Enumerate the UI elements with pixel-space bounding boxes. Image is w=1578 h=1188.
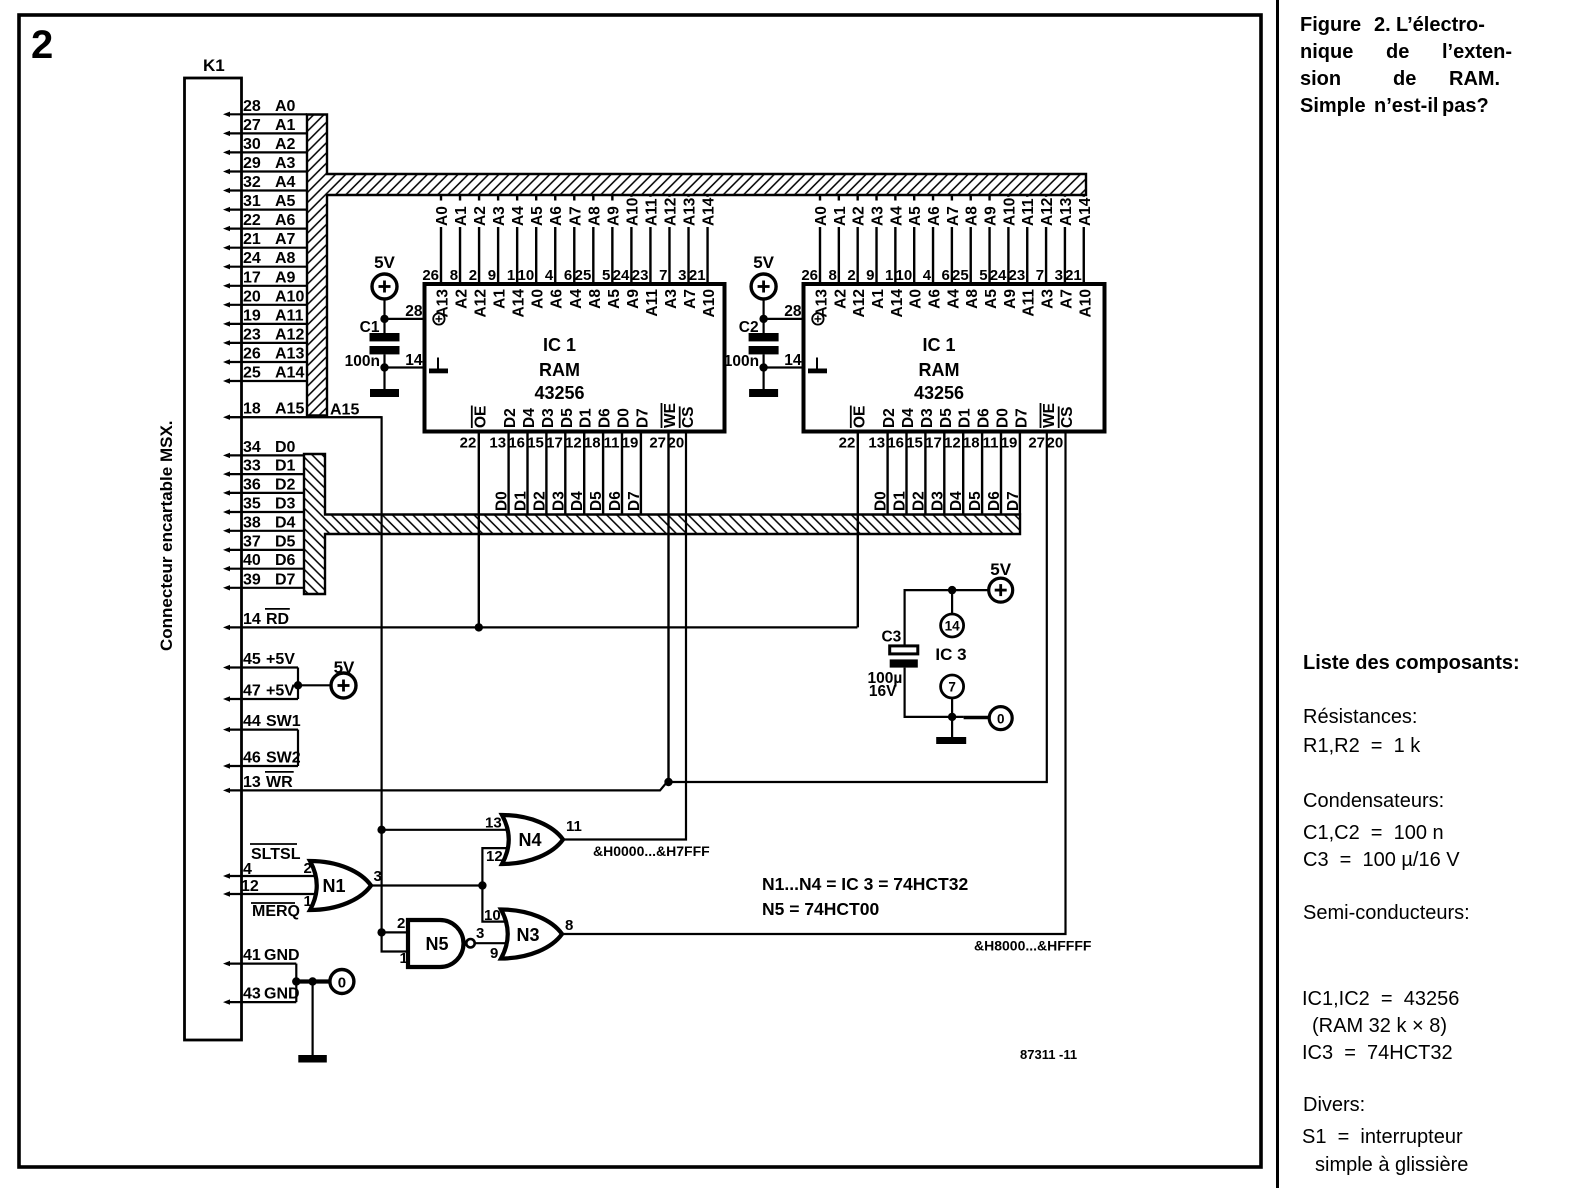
svg-text:D2: D2 [881,408,898,428]
5V supply symbol for IC2 [751,253,776,299]
svg-text:D7: D7 [1005,491,1022,511]
svg-text:25: 25 [575,267,592,284]
junction GND bracket [292,977,300,985]
svg-text:A11: A11 [275,307,304,324]
svg-text:A7: A7 [682,289,699,309]
svg-text:A5: A5 [907,206,924,226]
svg-text:A6: A6 [275,212,296,229]
svg-text:A10: A10 [275,288,304,305]
svg-text:D3: D3 [550,491,567,511]
svg-text:A14: A14 [511,289,528,318]
K1 pin 46 (SW2) [223,750,301,769]
K1 pin 20 (A10) [223,288,307,307]
svg-text:1: 1 [400,950,408,967]
svg-text:A15: A15 [330,402,359,419]
svg-text:A0: A0 [813,206,830,226]
0V supply symbol (IC3) [989,707,1012,730]
svg-text:D0: D0 [275,439,296,456]
svg-text:A4: A4 [888,206,905,226]
svg-text:D7: D7 [275,571,296,588]
svg-text:29: 29 [243,155,261,172]
wire C to pin 14 / ground (IC2) [764,354,804,390]
svg-text:A7: A7 [275,231,296,248]
svg-text:22: 22 [243,212,261,229]
svg-text:14: 14 [243,611,261,628]
svg-text:A4: A4 [945,289,962,309]
svg-text:A1: A1 [492,289,509,309]
svg-text:&H0000...&H7FFF: &H0000...&H7FFF [593,843,710,859]
svg-text:D2: D2 [910,491,927,511]
connector K1 side label: Connecteur encartable MSX. [157,420,176,651]
svg-text:A6: A6 [927,289,944,309]
5V supply symbol (IC3) [989,560,1013,602]
svg-text:D7: D7 [1013,408,1030,428]
K1 pin 26 (A13) [223,346,307,365]
svg-text:A7: A7 [1058,289,1075,309]
svg-text:8: 8 [450,267,458,284]
gate equivalence note N5 [762,899,879,919]
svg-text:A13: A13 [435,289,452,318]
svg-text:28: 28 [243,98,261,115]
wire N1 output to N4/N3 [371,884,482,886]
IC1 top pin numbers [422,267,705,284]
svg-text:GND: GND [264,947,300,964]
svg-text:39: 39 [243,571,261,588]
svg-text:D6: D6 [275,552,296,569]
svg-text:D2: D2 [275,476,296,493]
svg-text:D4: D4 [521,408,538,428]
IC2 GND pin 14 symbol [808,358,827,374]
svg-text:SW2: SW2 [266,750,301,767]
wire IC3 to ground bar [951,717,953,737]
svg-text:9: 9 [866,267,874,284]
svg-text:33: 33 [243,458,261,475]
svg-text:A5: A5 [606,289,623,309]
svg-text:D0: D0 [995,408,1012,428]
IC2 top pin numbers [801,267,1081,284]
svg-text:A5: A5 [529,206,546,226]
svg-text:WR: WR [266,774,293,791]
svg-text:D2: D2 [502,408,519,428]
svg-text:2: 2 [31,23,53,67]
IC1 address wire labels A0..A14 [434,197,718,227]
svg-text:A2: A2 [851,206,868,226]
svg-text:A8: A8 [587,289,604,309]
svg-text:SLTSL: SLTSL [251,846,301,863]
svg-text:A2: A2 [454,289,471,309]
svg-text:A11: A11 [1020,198,1037,226]
svg-text:A1: A1 [832,206,849,226]
K1 pin 14 (RD) [223,609,290,630]
svg-text:8: 8 [828,267,836,284]
svg-text:D1: D1 [513,491,530,511]
svg-text:26: 26 [243,346,261,363]
svg-text:A5: A5 [275,193,296,210]
svg-text:D5: D5 [588,491,605,511]
svg-text:D6: D6 [607,491,624,511]
svg-text:100n: 100n [345,353,380,370]
pin label 28 (IC1) [405,303,423,320]
N3 pin numbers [484,907,573,962]
svg-text:19: 19 [243,307,261,324]
svg-text:A6: A6 [548,206,565,226]
svg-text:38: 38 [243,514,261,531]
junction +5V bracket [294,681,302,689]
svg-text:0: 0 [997,712,1005,727]
connector K1 [185,78,242,1040]
svg-text:D1: D1 [275,458,296,475]
svg-text:RAM: RAM [539,360,580,380]
svg-text:A6: A6 [926,206,943,226]
svg-text:RD: RD [266,611,289,628]
svg-text:21: 21 [1065,267,1082,284]
svg-text:A6: A6 [549,289,566,309]
K1 pin 27 (A1) [223,117,307,136]
node label A15 [330,402,359,419]
svg-text:5: 5 [979,267,987,284]
IC2 +5V pin 28 symbol [812,313,823,324]
wire A15 to N5 pin 2 [382,931,410,933]
svg-text:D2: D2 [531,491,548,511]
svg-text:A0: A0 [908,289,925,309]
svg-text:A12: A12 [662,198,679,226]
IC1 internal address pin names [435,289,719,318]
switch S1 bracket (SW1/SW2) [297,730,299,766]
wire N3 output to CS IC2 (pin 20) [562,432,1066,935]
IC1 top address wires (pins 26, 8, 2, 9, 1, 10, 4, 6, 25, 5, 24, 23, 7, 3, 21) [441,195,708,284]
svg-text:16: 16 [508,435,525,452]
K1 pin 30 (A2) [223,136,307,155]
K1 pin 18 (A15) [223,401,382,420]
svg-text:A15: A15 [275,401,304,418]
net label &H0000...&H7FFF [593,843,710,859]
svg-text:37: 37 [243,533,261,550]
svg-text:44: 44 [243,713,261,730]
svg-text:2: 2 [397,915,405,932]
svg-text:8: 8 [565,917,573,934]
svg-text:A2: A2 [472,206,489,226]
svg-text:MERQ: MERQ [252,903,300,920]
svg-text:18: 18 [584,435,601,452]
svg-text:D6: D6 [597,408,614,428]
junction 5V/C IC1 [380,315,388,323]
svg-text:20: 20 [668,435,685,452]
svg-text:D5: D5 [275,533,296,550]
junction C/gnd IC1 [380,363,388,371]
ground bar (IC1 decoupling) [370,389,399,397]
svg-text:A14: A14 [889,289,906,318]
svg-text:25: 25 [952,267,969,284]
capacitor C1 [345,319,400,370]
svg-text:5: 5 [602,267,610,284]
svg-text:4: 4 [243,861,252,878]
svg-text:A13: A13 [275,346,304,363]
K1 pin 43 (GND) [223,986,300,1005]
IC2 internal bottom pin names (OE, D*, WE, CS) [851,403,1076,428]
svg-text:24: 24 [990,267,1007,284]
svg-text:46: 46 [243,750,261,767]
IC2 bottom pin numbers [839,435,1064,452]
IC2 data wire labels D0..D7 [873,491,1022,511]
wire A15 from K1 pin 18 down to gates [226,417,410,951]
svg-text:A13: A13 [814,289,831,318]
svg-text:A3: A3 [491,206,508,226]
wire 5V to pin 28 of IC1 [385,299,425,333]
svg-text:A9: A9 [1002,289,1019,309]
svg-text:7: 7 [1036,267,1044,284]
svg-text:C2: C2 [739,319,759,336]
wire GND to 0 symbol [296,979,330,983]
svg-text:12: 12 [486,848,503,865]
svg-text:43: 43 [243,986,261,1003]
svg-text:27: 27 [649,435,666,452]
svg-text:A4: A4 [510,206,527,226]
IC1 internal bottom pin names (OE, D*, WE, CS) [472,403,697,428]
K1 pin 39 (D7) [223,571,304,590]
svg-text:28: 28 [784,303,802,320]
svg-text:D6: D6 [976,408,993,428]
svg-text:WE: WE [1041,403,1058,428]
svg-text:27: 27 [243,117,261,134]
pin label 28 (IC2) [784,303,802,320]
svg-text:3: 3 [374,868,382,885]
svg-text:22: 22 [839,435,856,452]
svg-text:16: 16 [887,435,904,452]
junction A15/N5 pin 2 [377,928,385,936]
svg-text:A3: A3 [1040,289,1057,309]
svg-text:43256: 43256 [914,383,964,403]
svg-text:23: 23 [1009,267,1026,284]
svg-text:45: 45 [243,651,261,668]
svg-text:A4: A4 [275,174,296,191]
svg-text:A0: A0 [530,289,547,309]
svg-text:A3: A3 [275,155,296,172]
svg-text:D3: D3 [929,491,946,511]
IC1 data wire labels D0..D7 [494,491,643,511]
wire N5 output to N3 pin 9 [475,942,507,944]
K1 pin 21 (A7) [223,231,307,250]
N1 label [322,876,345,896]
svg-text:A9: A9 [275,269,296,286]
svg-text:12: 12 [944,435,961,452]
data bus D0..D7 (hatched band) [304,454,1020,594]
K1 pin 13 (WR) [223,772,294,793]
svg-text:CS: CS [680,406,697,428]
svg-text:100n: 100n [724,353,759,370]
svg-text:3: 3 [476,925,484,942]
svg-text:A12: A12 [275,326,304,343]
junction C/gnd IC2 [759,363,767,371]
svg-text:D4: D4 [900,408,917,428]
wire WE IC1 (pin 27) [667,432,669,783]
svg-text:27: 27 [1028,435,1045,452]
svg-text:41: 41 [243,947,261,964]
svg-text:D6: D6 [986,491,1003,511]
GND pins 41/43 bracket [295,964,297,1003]
column divider rule [1276,0,1279,1188]
svg-text:A14: A14 [701,197,718,226]
svg-text:K1: K1 [203,56,225,75]
svg-text:A0: A0 [275,98,296,115]
svg-text:15: 15 [906,435,923,452]
K1 pin 17 (A9) [223,269,307,288]
IC1 data pin wires down to data bus [509,432,641,515]
K1 pin 24 (A8) [223,250,307,269]
svg-text:A3: A3 [663,289,680,309]
wire to IC3 pin 14 [951,590,953,614]
svg-text:A10: A10 [624,198,641,226]
svg-text:D7: D7 [634,408,651,428]
svg-text:24: 24 [243,250,261,267]
N3 label [516,925,539,945]
svg-text:A2: A2 [832,289,849,309]
svg-text:32: 32 [243,174,261,191]
wire IC3 5V rail [905,590,989,645]
svg-text:A13: A13 [1058,197,1075,226]
K1 pin 4 (SLTSL) [223,844,316,879]
svg-text:A10: A10 [1077,289,1094,317]
svg-text:2: 2 [304,860,312,877]
IC2 internal address pin names [814,289,1095,318]
svg-text:D0: D0 [616,408,633,428]
K1 pin 47 (+5V) [223,683,298,702]
capacitor C3 [881,629,917,668]
svg-text:A1: A1 [870,289,887,309]
svg-text:A12: A12 [851,289,868,317]
svg-text:31: 31 [243,193,261,210]
schematic border frame [19,15,1261,1167]
5V supply symbol (K1) [331,658,356,698]
svg-text:17: 17 [546,435,563,452]
svg-text:D5: D5 [967,491,984,511]
svg-text:5V: 5V [990,560,1011,579]
svg-text:D5: D5 [559,408,576,428]
svg-text:20: 20 [1047,435,1064,452]
svg-text:15: 15 [527,435,544,452]
K1 pin 19 (A11) [223,307,307,326]
N5 label [425,934,448,954]
svg-text:&H8000...&HFFFF: &H8000...&HFFFF [974,938,1092,954]
svg-text:A13: A13 [682,197,699,226]
svg-text:A1: A1 [453,206,470,226]
svg-text:21: 21 [689,267,706,284]
K1 pin 28 (A0) [223,98,307,117]
svg-text:A8: A8 [964,289,981,309]
K1 pin 33 (D1) [223,458,304,477]
svg-text:14: 14 [784,352,802,369]
svg-text:7: 7 [659,267,667,284]
svg-text:11: 11 [604,435,620,452]
svg-text:43256: 43256 [534,383,584,403]
svg-text:RAM: RAM [919,360,960,380]
svg-text:16V: 16V [869,683,897,700]
svg-text:13: 13 [489,435,506,452]
wire WR (K1 pin 13 to WE pins) [226,432,1047,791]
svg-text:N1...N4 = IC 3 = 74HCT32: N1...N4 = IC 3 = 74HCT32 [762,874,968,894]
junction N1 output [478,881,486,889]
svg-text:D7: D7 [626,491,643,511]
svg-text:A8: A8 [964,206,981,226]
svg-text:A14: A14 [1077,197,1094,226]
svg-text:D3: D3 [540,408,557,428]
svg-text:D4: D4 [275,514,296,531]
wire RD (K1 pin 14 to OE pins) [226,626,857,628]
svg-text:A5: A5 [983,289,1000,309]
K1 pin 40 (D6) [223,552,304,571]
gate equivalence note N1...N4 [762,874,968,894]
K1 pin 36 (D2) [223,476,304,495]
net label &H8000...&HFFFF [974,938,1092,954]
figure caption [1300,14,1361,37]
svg-text:SW1: SW1 [266,713,301,730]
svg-text:D1: D1 [578,408,595,428]
svg-text:A14: A14 [275,365,304,382]
svg-text:17: 17 [243,269,261,286]
svg-text:N3: N3 [516,925,539,945]
svg-text:A7: A7 [945,206,962,226]
svg-text:N1: N1 [322,876,345,896]
IC1 +5V pin 28 symbol [433,313,444,324]
svg-text:N5: N5 [425,934,448,954]
svg-text:N5 = 74HCT00: N5 = 74HCT00 [762,899,879,919]
or-gate N1 [310,861,371,910]
wire C to pin 14 / ground (IC1) [385,354,425,390]
svg-text:A1: A1 [275,117,296,134]
svg-text:7: 7 [948,680,956,695]
svg-text:D3: D3 [919,408,936,428]
svg-text:13: 13 [868,435,885,452]
svg-text:D0: D0 [873,491,890,511]
svg-text:A4: A4 [568,289,585,309]
K1 pin 32 (A4) [223,174,307,193]
IC2 data pin wires down to data bus [888,432,1020,515]
or-gate N4 [502,815,563,864]
K1 pin 37 (D5) [223,533,304,552]
RAM IC1 body [425,284,725,432]
svg-text:9: 9 [488,267,496,284]
IC3 pin 7 circle [941,675,964,698]
svg-text:A2: A2 [275,136,296,153]
K1 pin 45 (+5V) [223,651,298,670]
svg-text:14: 14 [405,352,423,369]
K1 pin 44 (SW1) [223,713,301,732]
svg-text:D1: D1 [957,408,974,428]
svg-text:A11: A11 [644,289,661,317]
svg-text:10: 10 [484,907,501,924]
K1 pin 25 (A14) [223,365,307,384]
svg-text:36: 36 [243,476,261,493]
component list [1303,652,1520,675]
svg-text:26: 26 [801,267,818,284]
junction IC3 0V [948,713,956,721]
IC2 address wire labels A0..A14 [813,197,1094,227]
ground bar (K1) [298,1055,327,1063]
svg-text:A9: A9 [625,289,642,309]
svg-text:+5V: +5V [266,651,295,668]
wire N4 output to CS IC1 (pin 20) [563,432,686,840]
svg-text:18: 18 [963,435,980,452]
svg-text:D5: D5 [938,408,955,428]
svg-text:D1: D1 [892,491,909,511]
svg-text:6: 6 [564,267,572,284]
svg-text:24: 24 [613,267,630,284]
svg-text:A12: A12 [473,289,490,317]
svg-text:4: 4 [545,267,554,284]
svg-text:87311 -11: 87311 -11 [1020,1047,1077,1062]
svg-text:Connecteur encartable MSX.: Connecteur encartable MSX. [157,420,176,651]
svg-text:34: 34 [243,439,261,456]
svg-text:5V: 5V [753,253,774,272]
